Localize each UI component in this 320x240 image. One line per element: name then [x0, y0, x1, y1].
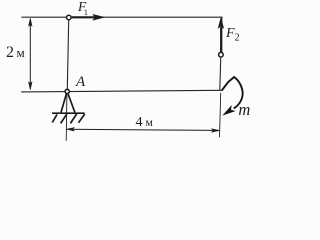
wire top chord [22, 16, 222, 18]
wire right column member [220, 17, 222, 90]
extension line below A [65, 95, 68, 141]
moment m (curved arrow, clockwise) [222, 77, 243, 115]
label F2 [226, 27, 240, 44]
support hatching [52, 114, 57, 122]
label moment m [238, 102, 250, 119]
wire left column member [67, 20, 68, 89]
support base line [52, 112, 85, 114]
extension line below right end [220, 93, 221, 137]
pinned support at A (triangle legs) [52, 94, 85, 124]
label 2 m [6, 45, 25, 61]
wire bottom beam [22, 90, 223, 92]
dimension 4 m (horizontal, bottom) [66, 93, 221, 141]
label F1 [78, 0, 88, 16]
node pin on F2 line [219, 52, 224, 57]
node pin top-left (hinge circle) [67, 15, 72, 20]
node A (pin circle) [65, 89, 69, 93]
force F2 (arrow up) [218, 18, 223, 52]
dimension 2 m (vertical, left) [29, 18, 33, 90]
label node A [76, 75, 85, 90]
force F1 (arrow) [72, 15, 104, 20]
label 4 m [136, 116, 153, 130]
